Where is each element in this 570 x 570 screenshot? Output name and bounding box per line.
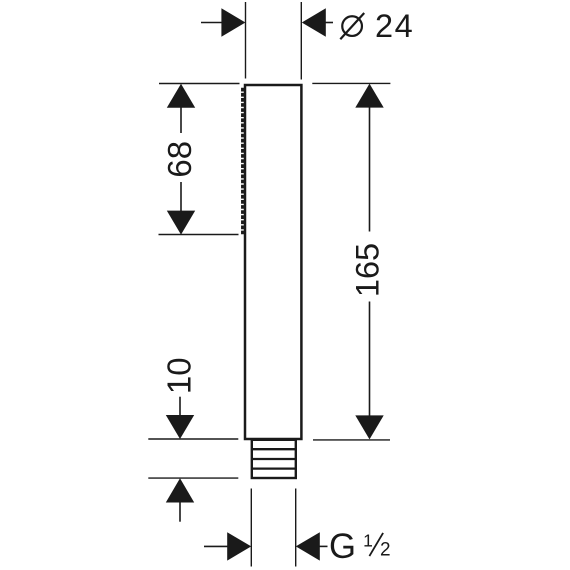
- thread line 2: [252, 458, 296, 460]
- dim 165 bottom extension line: [313, 439, 390, 441]
- thread line 3: [252, 467, 296, 469]
- svg-text:2: 2: [380, 540, 391, 561]
- dim 10 upper extension line: [148, 438, 238, 440]
- dim 165 top extension line: [312, 82, 390, 84]
- svg-text:165: 165: [349, 243, 385, 297]
- diameter extension line right: [300, 2, 302, 80]
- G 1/2 arrow left: [204, 532, 251, 560]
- dim 10 up arrow: [166, 478, 194, 522]
- thread connector G1/2 block: [252, 440, 296, 478]
- svg-text:24: 24: [375, 8, 414, 44]
- thread line 1: [252, 448, 296, 450]
- diameter symbol: [340, 13, 364, 39]
- G 1/2 arrow right: [296, 532, 328, 560]
- dim 10 lower extension line: [148, 477, 238, 479]
- svg-text:G: G: [329, 526, 356, 566]
- nozzle strip (spray face dots): [241, 88, 244, 235]
- dim 10 down arrow: [166, 397, 194, 439]
- dim 68 top extension line: [159, 83, 240, 85]
- diameter arrow left: [201, 8, 245, 36]
- dim 68 bottom extension line: [159, 234, 239, 236]
- G 1/2 label: [329, 526, 391, 566]
- G 1/2 extension line right: [295, 489, 297, 567]
- G 1/2 extension line left: [250, 489, 252, 567]
- dim 165 up arrow: [355, 84, 383, 232]
- hand shower body outline: [245, 85, 301, 439]
- dim 68 up arrow: [167, 84, 195, 133]
- svg-text:68: 68: [161, 141, 198, 178]
- dim 165 down arrow: [355, 302, 383, 440]
- diameter extension line left: [245, 2, 247, 79]
- dim 68 down arrow: [167, 182, 195, 235]
- diameter arrow right: [302, 8, 333, 36]
- svg-text:1: 1: [363, 531, 373, 551]
- svg-text:10: 10: [160, 357, 197, 394]
